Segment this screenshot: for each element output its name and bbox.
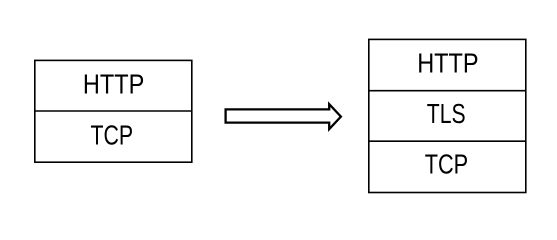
svg-text:HTTP: HTTP <box>83 68 144 99</box>
left stack divider <box>35 110 192 112</box>
right stack divider 2 <box>369 140 526 142</box>
svg-text:TCP: TCP <box>91 119 134 150</box>
svg-text:TCP: TCP <box>425 149 468 180</box>
left stack outer box <box>35 60 192 162</box>
svg-text:HTTP: HTTP <box>417 48 478 79</box>
right stack outer box <box>369 39 526 192</box>
block arrow <box>226 104 341 129</box>
svg-text:TLS: TLS <box>427 98 466 129</box>
right stack divider 1 <box>369 90 526 92</box>
